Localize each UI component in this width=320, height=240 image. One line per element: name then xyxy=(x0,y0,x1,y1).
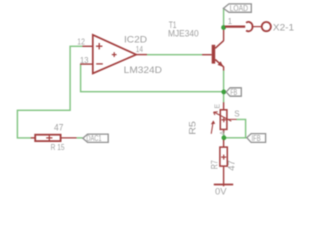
wire xyxy=(223,133,225,141)
label IC2D xyxy=(124,35,147,46)
ground 0V xyxy=(214,184,233,186)
svg-text:DAC1: DAC1 xyxy=(86,134,102,143)
flag IFB xyxy=(247,134,266,143)
wire xyxy=(77,137,83,139)
wire xyxy=(223,70,225,102)
svg-text:IFB: IFB xyxy=(252,134,262,143)
junction node FB xyxy=(221,90,226,95)
wire xyxy=(17,46,82,138)
value 47 (R7) xyxy=(227,160,238,171)
label LM324D xyxy=(124,65,162,76)
svg-text:E: E xyxy=(214,104,221,109)
pin E xyxy=(214,104,221,109)
transistor T1 xyxy=(202,30,224,71)
svg-text:LM324D: LM324D xyxy=(124,65,162,76)
svg-text:R7: R7 xyxy=(209,160,220,169)
pin 13 xyxy=(80,56,89,65)
junction node R5/R7/IFB xyxy=(222,135,227,140)
resistor R15 xyxy=(31,135,77,141)
wire xyxy=(236,119,245,137)
label R7 xyxy=(209,160,220,169)
label R5 xyxy=(188,121,199,135)
svg-text:47: 47 xyxy=(54,123,63,133)
potentiometer R5 xyxy=(211,102,237,134)
label DAC1 xyxy=(86,134,102,143)
label IFB xyxy=(252,134,262,143)
wire xyxy=(147,54,202,56)
wire xyxy=(81,64,225,92)
svg-text:14: 14 xyxy=(136,45,144,54)
pin 14 xyxy=(136,45,144,54)
wire xyxy=(223,9,225,30)
pin 1 xyxy=(228,17,232,26)
svg-text:12: 12 xyxy=(77,38,85,47)
svg-text:FB: FB xyxy=(230,88,237,97)
junction node LOAD/collector xyxy=(221,25,226,30)
connector X2-1 xyxy=(225,22,271,31)
flag FB xyxy=(226,88,241,96)
svg-text:R5: R5 xyxy=(188,121,199,135)
resistor R7 xyxy=(220,140,227,187)
svg-text:0V: 0V xyxy=(215,186,227,197)
svg-text:LOAD: LOAD xyxy=(230,3,248,13)
svg-text:1: 1 xyxy=(228,17,232,26)
flag LOAD xyxy=(223,4,251,12)
wire xyxy=(224,137,247,139)
svg-text:R 15: R 15 xyxy=(51,142,65,152)
label MJE340 xyxy=(168,28,199,39)
svg-text:47: 47 xyxy=(227,160,238,171)
label X2-1 xyxy=(273,22,294,33)
label 0V xyxy=(215,186,227,197)
pin A xyxy=(220,130,227,135)
svg-text:S: S xyxy=(234,110,239,119)
op-amp U1 IC2D xyxy=(80,35,147,74)
svg-text:MJE340: MJE340 xyxy=(168,28,199,39)
svg-text:X2-1: X2-1 xyxy=(273,22,294,33)
svg-text:A: A xyxy=(220,130,227,135)
label T1 xyxy=(169,20,177,31)
value 47 (R15) xyxy=(54,123,63,133)
label FB xyxy=(230,88,237,97)
pin 12 xyxy=(77,38,85,47)
label R15 xyxy=(51,142,65,152)
svg-text:13: 13 xyxy=(80,56,89,65)
flag DAC1 xyxy=(83,134,108,142)
label LOAD xyxy=(230,3,248,13)
pin S xyxy=(234,110,239,119)
